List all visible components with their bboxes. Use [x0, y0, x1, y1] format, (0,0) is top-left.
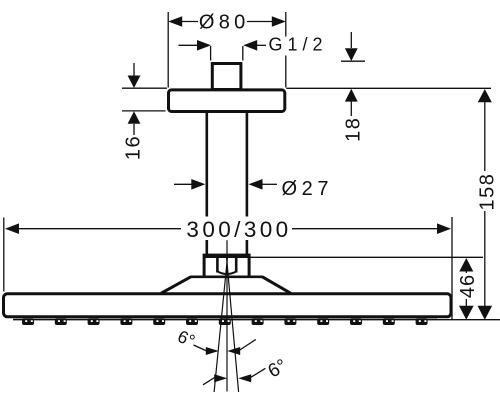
svg-text:16: 16: [122, 135, 144, 160]
dimension 158: [478, 89, 492, 102]
dimension 16: [133, 63, 135, 76]
svg-text:Ø27: Ø27: [282, 178, 334, 200]
nut body: [204, 258, 249, 277]
svg-text:18: 18: [342, 117, 364, 142]
svg-text:Ø80: Ø80: [199, 12, 250, 34]
node spray centerline: [226, 240, 228, 391]
dimension 6 degrees lower: [203, 378, 215, 385]
cone left diagonal: [161, 277, 191, 294]
dimension 46: [459, 258, 473, 272]
dimension G1/2: [179, 45, 267, 60]
flange ceiling plate: [169, 90, 285, 112]
shower head plate: [4, 294, 452, 317]
nozzles: [22, 318, 428, 325]
dimension 18: [350, 32, 352, 48]
spray plate strip: [13, 319, 437, 321]
wire 46 top reference: [251, 256, 484, 258]
svg-text:158: 158: [476, 173, 498, 211]
dimension 300/300: [3, 218, 5, 292]
svg-text:46: 46: [457, 274, 479, 298]
nut top bar: [203, 254, 251, 258]
nut bottom arc: [218, 272, 237, 275]
dimension Ø27: [174, 183, 192, 185]
cone right diagonal: [262, 277, 291, 294]
pipe: [207, 113, 247, 255]
wire flange bottom left extension: [122, 110, 166, 112]
svg-text:G1/2: G1/2: [269, 35, 328, 55]
wire left spray line: [214, 258, 227, 392]
wire: [182, 217, 290, 241]
nut shoulder: [190, 275, 262, 278]
wire right spray line: [227, 258, 239, 392]
connector square G1/2 nipple: [212, 64, 241, 90]
wire flange top left extension: [122, 87, 167, 89]
svg-text:300/300: 300/300: [186, 217, 291, 242]
wire flange top right long extension: [286, 87, 491, 89]
dimension Ø80: [168, 12, 286, 88]
wire bottom reference line: [437, 319, 500, 321]
